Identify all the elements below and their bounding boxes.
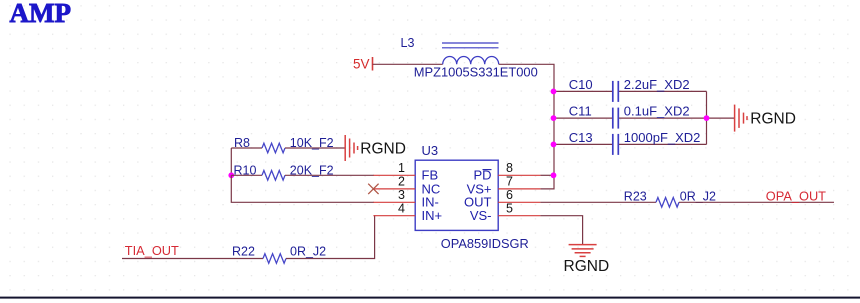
svg-text:2.2uF_XD2: 2.2uF_XD2 bbox=[624, 77, 690, 92]
svg-text:OPA859IDSGR: OPA859IDSGR bbox=[441, 236, 529, 251]
svg-text:RGND: RGND bbox=[564, 258, 610, 275]
pin 5 bbox=[498, 215, 540, 217]
wire TIA_OUT to R22 bbox=[122, 258, 263, 260]
pin 6 bbox=[498, 201, 540, 203]
svg-text:5V: 5V bbox=[353, 56, 370, 71]
junction dot R10 bbox=[228, 172, 234, 178]
pin 7 bbox=[498, 188, 540, 190]
ground RGND right bbox=[735, 105, 796, 132]
wire caps right vertical bbox=[706, 91, 708, 144]
junction rail/C11 bbox=[551, 115, 557, 121]
svg-text:U3: U3 bbox=[422, 143, 439, 158]
svg-text:R23: R23 bbox=[624, 189, 647, 203]
svg-text:10K_F2: 10K_F2 bbox=[290, 136, 334, 150]
svg-text:5: 5 bbox=[506, 201, 513, 215]
svg-text:R10: R10 bbox=[234, 164, 257, 178]
svg-text:20K_F2: 20K_F2 bbox=[290, 164, 334, 178]
svg-text:0.1uF_XD2: 0.1uF_XD2 bbox=[624, 104, 690, 119]
resistor R8 bbox=[231, 136, 344, 153]
svg-text:C11: C11 bbox=[569, 104, 592, 119]
wire 5V to inductor bbox=[373, 63, 443, 65]
pin 2 bbox=[373, 188, 415, 190]
svg-text:R22: R22 bbox=[232, 244, 255, 258]
wire R8 to R10 junction bbox=[230, 148, 232, 175]
svg-text:1: 1 bbox=[398, 161, 405, 175]
wire VS- to ground bbox=[540, 216, 582, 245]
svg-text:AMP: AMP bbox=[10, 0, 71, 28]
svg-text:0R_J2: 0R_J2 bbox=[290, 244, 326, 258]
resistor R22 bbox=[232, 244, 326, 263]
inductor L3 bbox=[401, 36, 538, 79]
capacitor C13 bbox=[569, 130, 701, 155]
wire feedback to IN- bbox=[231, 175, 374, 202]
svg-text:TIA_OUT: TIA_OUT bbox=[125, 243, 179, 258]
svg-text:L3: L3 bbox=[401, 36, 415, 50]
wire inductor to rail bbox=[499, 64, 554, 189]
svg-text:VS-: VS- bbox=[470, 208, 492, 223]
pin 3 bbox=[373, 201, 415, 203]
wire R22 to IN+ bbox=[286, 216, 375, 259]
resistor R10 bbox=[231, 164, 374, 181]
pin 8 bbox=[498, 174, 540, 176]
no-connect X on pin 2 bbox=[368, 184, 378, 194]
pin 4 bbox=[373, 215, 415, 217]
wire OUT to R23 bbox=[540, 201, 656, 203]
svg-text:2: 2 bbox=[398, 175, 405, 189]
wire to RGND right bbox=[707, 117, 735, 119]
wire C13 row bbox=[554, 143, 707, 145]
svg-text:C13: C13 bbox=[569, 130, 593, 145]
pin 1 bbox=[373, 174, 415, 176]
svg-text:0R_J2: 0R_J2 bbox=[680, 189, 716, 203]
sheet bottom border bbox=[0, 297, 860, 299]
svg-text:MPZ1005S331ET000: MPZ1005S331ET000 bbox=[414, 65, 538, 80]
svg-text:4: 4 bbox=[398, 201, 405, 215]
op-amp U3 bbox=[415, 143, 529, 251]
junction rail/C13 bbox=[551, 142, 557, 148]
svg-text:RGND: RGND bbox=[360, 140, 406, 157]
ground RGND at R8 bbox=[345, 135, 406, 161]
svg-text:7: 7 bbox=[506, 175, 513, 189]
wire R23 to OPA_OUT bbox=[679, 201, 834, 203]
svg-text:3: 3 bbox=[398, 188, 405, 202]
capacitor C10 bbox=[569, 77, 690, 102]
svg-text:8: 8 bbox=[506, 161, 513, 175]
svg-text:C10: C10 bbox=[569, 77, 593, 92]
resistor R23 bbox=[624, 189, 716, 207]
ground RGND bottom bbox=[564, 245, 610, 275]
wire C10 row bbox=[554, 90, 707, 92]
svg-text:R8: R8 bbox=[234, 136, 250, 150]
svg-text:6: 6 bbox=[506, 188, 513, 202]
svg-text:RGND: RGND bbox=[750, 110, 796, 127]
svg-text:1000pF_XD2: 1000pF_XD2 bbox=[624, 130, 701, 145]
junction caps right / RGND bbox=[704, 115, 710, 121]
wire C11 row bbox=[554, 117, 707, 119]
svg-text:IN+: IN+ bbox=[422, 208, 443, 223]
junction rail/C10 bbox=[551, 89, 557, 95]
svg-text:OPA_OUT: OPA_OUT bbox=[766, 188, 826, 203]
power port 5V bbox=[353, 56, 373, 71]
junction rail/PD bbox=[551, 172, 557, 178]
capacitor C11 bbox=[569, 104, 690, 129]
wire PD pin to rail bbox=[540, 174, 553, 176]
